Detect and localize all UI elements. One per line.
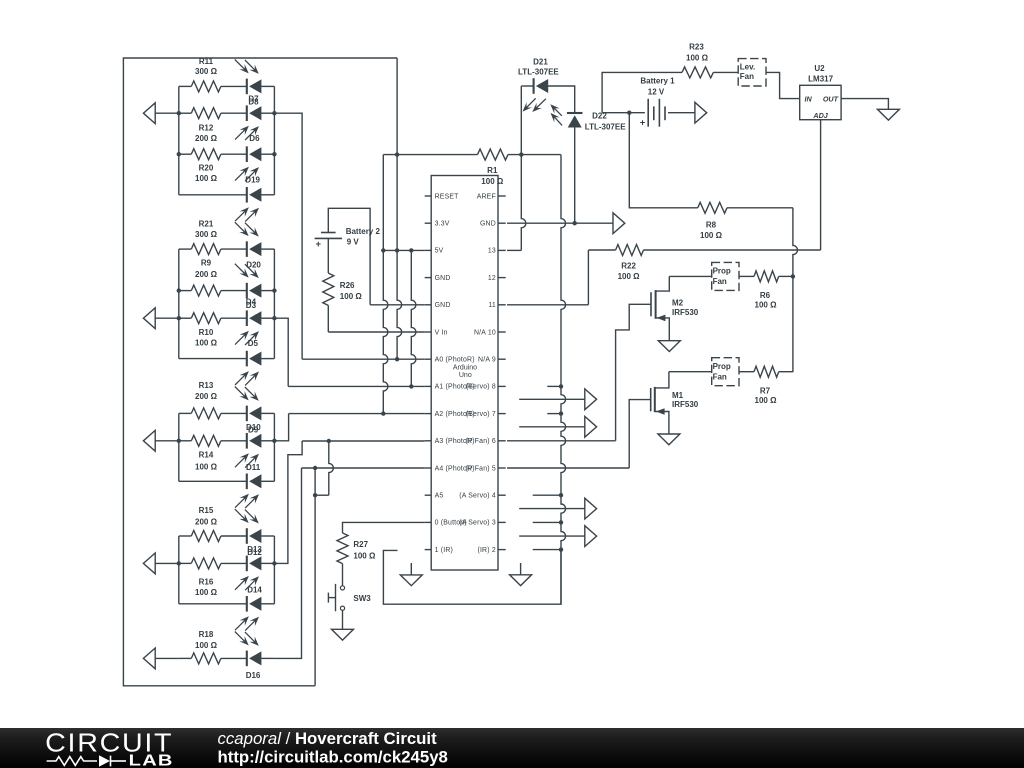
label D10 <box>246 423 261 432</box>
svg-text:100 Ω: 100 Ω <box>755 301 778 310</box>
resistor R16 <box>191 558 221 597</box>
label Battery 1 <box>640 77 675 97</box>
label D19 <box>245 176 260 185</box>
photodiode D13 <box>235 509 262 544</box>
svg-text:D6: D6 <box>249 134 260 143</box>
svg-text:SW3: SW3 <box>353 594 371 603</box>
resistor R8 <box>698 202 727 240</box>
wire right rail block 3 <box>273 413 275 481</box>
wire left rail block 3 <box>178 413 180 481</box>
label D6 <box>249 134 260 143</box>
svg-text:LTL-307EE: LTL-307EE <box>585 122 626 131</box>
svg-text:D12: D12 <box>247 548 262 557</box>
wire R26 to VIn <box>327 305 329 332</box>
wire port row d <box>519 535 585 537</box>
wire PropFan1 to R6 <box>739 275 754 277</box>
wire block 4 row 3 <box>179 603 275 605</box>
wire A1 row <box>288 385 425 387</box>
svg-text:A5: A5 <box>435 493 444 500</box>
port arrow block 4 <box>143 553 178 574</box>
svg-text:R23: R23 <box>689 42 704 51</box>
svg-text:AREF: AREF <box>477 193 496 200</box>
wire A4 row <box>302 466 425 470</box>
wire A3 branch down <box>315 441 333 495</box>
svg-text:R15: R15 <box>199 506 214 515</box>
label D14 <box>247 586 262 595</box>
svg-text:200 Ω: 200 Ω <box>195 270 218 279</box>
junction <box>177 111 277 115</box>
wire left rail block 1 <box>178 86 180 194</box>
LED D22 <box>550 104 582 127</box>
svg-text:100 Ω: 100 Ω <box>481 177 504 186</box>
label D4 <box>246 298 257 307</box>
label D21 <box>518 57 559 76</box>
wire R6 to node <box>779 275 793 277</box>
photodiode D4 <box>235 264 262 299</box>
label D20 <box>246 260 261 269</box>
LED D21 <box>523 78 549 112</box>
photodiode D6 <box>235 146 261 181</box>
wire right rail block 1 <box>273 86 275 194</box>
svg-text:IRF530: IRF530 <box>672 400 699 409</box>
resistor R22 <box>616 245 644 282</box>
wire M1 drain to PropFan2 <box>669 371 712 373</box>
ground M2 <box>658 341 680 352</box>
port arrow block 1 <box>143 103 178 124</box>
wire v1 5V-A2 <box>383 155 388 414</box>
op-amp U1 Arduino Uno box <box>431 176 498 571</box>
wire R1 row <box>383 154 561 156</box>
svg-text:R21: R21 <box>199 220 214 229</box>
wire port row b <box>519 426 585 428</box>
junction v2 A0 <box>395 357 399 361</box>
label Arduino Uno <box>453 364 477 379</box>
svg-text:100 Ω: 100 Ω <box>618 272 641 281</box>
wire GND row <box>507 222 613 224</box>
ground M1 <box>658 434 680 445</box>
wire block3 out to A2 <box>274 414 288 441</box>
svg-text:D14: D14 <box>247 586 262 595</box>
resistor R10 <box>191 313 221 348</box>
wire left rail block 2 <box>178 249 180 359</box>
svg-text:Fan: Fan <box>713 277 727 286</box>
port battery out <box>695 102 707 123</box>
svg-text:12 V: 12 V <box>648 87 665 96</box>
svg-text:IRF530: IRF530 <box>672 308 699 317</box>
junction <box>177 288 277 292</box>
port arrow block 5 <box>143 648 178 669</box>
wire VIn row <box>328 331 424 333</box>
wire U2 OUT to ground <box>841 99 888 110</box>
wire block2 out to A1 <box>274 318 288 386</box>
svg-text:GND: GND <box>480 221 496 228</box>
ground SW3 <box>332 629 354 640</box>
svg-text:(Servo) 8: (Servo) 8 <box>466 384 496 391</box>
label D12 <box>247 548 262 557</box>
wire 1 row stub <box>383 550 561 605</box>
wire pin7 seg <box>547 413 561 415</box>
svg-text:D16: D16 <box>246 671 261 680</box>
photodiode D10 <box>235 387 262 422</box>
svg-text:100 Ω: 100 Ω <box>340 292 363 301</box>
svg-text:Battery 1: Battery 1 <box>640 77 675 86</box>
svg-text:R9: R9 <box>201 259 212 268</box>
svg-text:R6: R6 <box>760 291 771 300</box>
wire border loop <box>123 58 397 686</box>
wire SW3 to ground <box>342 610 344 629</box>
photodiode D20 <box>235 222 262 257</box>
wire pin3 seg <box>533 521 561 523</box>
svg-text:M1: M1 <box>672 391 684 400</box>
wire A3 row <box>302 439 425 443</box>
svg-text:R26: R26 <box>340 281 355 290</box>
svg-text:GND: GND <box>435 275 451 282</box>
resistor R7 <box>754 366 779 405</box>
svg-text:ADJ: ADJ <box>812 111 828 120</box>
resistor R1 <box>478 149 509 186</box>
photodiode D8 <box>235 105 261 140</box>
svg-text:Prop: Prop <box>713 362 731 371</box>
svg-text:U2: U2 <box>814 64 825 73</box>
photodiode D7 <box>235 60 262 95</box>
wire M2 drain to PropFan1 <box>669 275 711 277</box>
svg-text:D3: D3 <box>246 301 257 310</box>
svg-text:http://circuitlab.com/ck245y8: http://circuitlab.com/ck245y8 <box>218 748 448 767</box>
svg-text:(P Fan) 5: (P Fan) 5 <box>465 465 495 472</box>
wire R23 to LevFan <box>713 71 738 73</box>
junction <box>177 152 277 156</box>
junction v1 A2 <box>381 411 385 415</box>
wire R23 riser <box>602 72 682 112</box>
wire port row a <box>519 398 585 400</box>
ground under Arduino <box>400 563 422 586</box>
wire port row c <box>519 508 585 510</box>
svg-text:GND: GND <box>435 302 451 309</box>
photodiode D3 <box>235 310 261 345</box>
wire block 2 row 2 <box>179 290 275 292</box>
svg-text:D11: D11 <box>246 463 261 472</box>
resistor R26 <box>323 273 363 305</box>
photodiode D19 <box>235 187 261 222</box>
label D9 <box>248 425 259 434</box>
svg-text:+: + <box>316 239 322 250</box>
svg-text:R18: R18 <box>199 630 214 639</box>
wire R7 to node <box>779 371 793 373</box>
label D7 <box>248 95 259 104</box>
label Battery 2 <box>346 227 381 247</box>
wire block 3 row 1 <box>179 412 275 414</box>
svg-text:Uno: Uno <box>459 372 472 379</box>
label D11 <box>246 463 261 472</box>
wire pin11 to R22 <box>507 250 588 305</box>
wire R1net riser x561 <box>561 155 566 605</box>
wire pin6 to M2 gate <box>507 304 651 441</box>
svg-text:R12: R12 <box>199 123 214 132</box>
wire pin5 to M1 gate <box>507 400 651 468</box>
port arrow a <box>585 389 597 410</box>
label D8 <box>248 97 259 106</box>
junction R1 right <box>519 152 523 156</box>
svg-text:(P Fan) 6: (P Fan) 6 <box>465 438 495 445</box>
svg-text:12: 12 <box>488 275 496 282</box>
svg-text:LAB: LAB <box>129 752 174 768</box>
wire D22 down <box>574 127 576 223</box>
photodiode D11 <box>235 474 261 509</box>
wire D21 to D22 top <box>548 86 575 113</box>
wire battery1 row <box>602 112 695 114</box>
wire block5 out to A4 <box>274 468 301 658</box>
svg-text:Fan: Fan <box>740 72 754 81</box>
svg-text:100 Ω: 100 Ω <box>195 641 218 650</box>
svg-text:D5: D5 <box>248 339 259 348</box>
battery B1 <box>640 99 665 129</box>
label D13 <box>247 545 262 554</box>
wire LevFan to U2 <box>766 72 800 98</box>
svg-text:OUT: OUT <box>823 94 839 103</box>
svg-text:R27: R27 <box>353 540 368 549</box>
Prop Fan 1 box <box>712 262 739 290</box>
svg-text:Arduino: Arduino <box>453 364 477 371</box>
wire battery2 top loop <box>328 208 370 304</box>
wire block 5 row 1 <box>179 657 275 659</box>
svg-text:N/A 10: N/A 10 <box>474 329 496 336</box>
wire block 4 row 1 <box>179 535 275 537</box>
wire left rail block 4 <box>178 536 180 604</box>
wire pin13 riser <box>507 86 526 250</box>
wire block 1 row 1 <box>179 85 275 87</box>
svg-text:100 Ω: 100 Ω <box>195 339 218 348</box>
svg-text:(IR) 2: (IR) 2 <box>477 547 495 554</box>
wire R27 to SW3 <box>342 564 344 586</box>
resistor R9 <box>191 259 221 297</box>
svg-text:M2: M2 <box>672 299 684 308</box>
ground right <box>510 563 532 586</box>
label D16 <box>246 671 261 680</box>
resistor R6 <box>754 271 779 310</box>
label D5 <box>248 339 259 348</box>
wire block 1 row 4 <box>179 194 275 196</box>
Lev Fan box <box>738 59 766 86</box>
junction <box>177 316 277 320</box>
Arduino pin stubs <box>425 196 506 550</box>
svg-text:D20: D20 <box>246 260 261 269</box>
svg-text:100 Ω: 100 Ω <box>686 53 709 62</box>
svg-text:D9: D9 <box>248 425 259 434</box>
wire battery1 to R8 <box>629 113 697 208</box>
svg-text:D21: D21 <box>533 57 548 66</box>
svg-text:R16: R16 <box>199 577 214 586</box>
wire R8 to R6 node <box>727 208 797 372</box>
port arrow b <box>585 416 597 437</box>
port arrow c <box>585 498 597 519</box>
svg-text:R10: R10 <box>199 328 214 337</box>
label D3 <box>246 301 257 310</box>
wire block4 out to A3 <box>274 441 302 563</box>
port arrow block 3 <box>143 430 178 451</box>
svg-text:3.3V: 3.3V <box>435 221 450 228</box>
svg-text:R1: R1 <box>487 166 498 175</box>
resistor R20 <box>191 149 221 183</box>
svg-text:(A Servo) 4: (A Servo) 4 <box>459 493 496 500</box>
wire block 4 row 2 <box>179 562 275 564</box>
wire A4 branch down <box>313 468 317 686</box>
svg-text:LM317: LM317 <box>808 75 833 84</box>
junction D22 GND row <box>573 221 577 225</box>
resistor R27 <box>337 533 376 564</box>
resistor R15 <box>191 506 221 542</box>
junction v3 A1 <box>409 384 413 388</box>
footer bar with CircuitLab logo and title <box>0 728 1024 768</box>
battery B2 <box>315 233 342 250</box>
svg-text:R7: R7 <box>760 387 771 396</box>
svg-text:+: + <box>640 117 646 128</box>
wire block 1 row 2 <box>179 112 275 114</box>
svg-text:100 Ω: 100 Ω <box>755 396 778 405</box>
svg-text:IN: IN <box>805 95 813 104</box>
wire PropFan2 to R7 <box>739 371 754 373</box>
wire A0 row <box>302 358 425 360</box>
svg-text:9 V: 9 V <box>347 238 360 247</box>
photodiode D9 <box>235 433 261 468</box>
wire U2 ADJ down <box>820 120 822 250</box>
svg-text:300 Ω: 300 Ω <box>195 230 218 239</box>
resistor R23 <box>682 42 713 78</box>
junction battery1 <box>627 111 631 115</box>
svg-text:100 Ω: 100 Ω <box>195 462 218 471</box>
ground U2 out <box>877 109 899 120</box>
svg-text:200 Ω: 200 Ω <box>195 392 218 401</box>
resistor R13 <box>191 381 221 419</box>
wire right rail block 4 <box>273 536 275 604</box>
wire right rail block 2 <box>273 249 275 359</box>
wire pin4 seg <box>533 494 561 496</box>
photodiode D16 <box>235 632 262 667</box>
svg-text:RESET: RESET <box>435 193 460 200</box>
wire 0 row to R27 <box>343 522 425 533</box>
svg-text:R8: R8 <box>706 220 717 229</box>
op-amp U2 LM317 box <box>800 64 841 120</box>
svg-text:100 Ω: 100 Ω <box>195 174 218 183</box>
svg-text:R20: R20 <box>199 163 214 172</box>
transistor M1 IRF530 <box>651 372 699 434</box>
svg-text:D19: D19 <box>245 176 260 185</box>
svg-text:(Servo) 7: (Servo) 7 <box>466 411 496 418</box>
wire block1 out to A0 <box>274 113 302 359</box>
svg-text:R13: R13 <box>199 381 214 390</box>
svg-text:R14: R14 <box>199 451 214 460</box>
wire v2 top-A0 <box>397 58 402 359</box>
port GND out <box>613 213 625 234</box>
Prop Fan 2 box <box>712 358 739 386</box>
svg-text:V In: V In <box>435 329 448 336</box>
wire block 3 row 3 <box>179 480 275 482</box>
resistor R21 <box>191 220 221 255</box>
svg-text:LTL-307EE: LTL-307EE <box>518 67 559 76</box>
wire R22 to U2 ADJ <box>644 249 821 251</box>
switch SW3 <box>328 584 371 611</box>
svg-text:200 Ω: 200 Ω <box>195 517 218 526</box>
resistor R18 <box>191 630 221 664</box>
wire A2 row <box>289 413 425 415</box>
junction v2 R1 <box>395 152 399 156</box>
junction pins 8 7 4 3 2 <box>559 384 563 552</box>
photodiode D5 <box>235 351 261 386</box>
svg-text:13: 13 <box>488 248 496 255</box>
svg-text:5V: 5V <box>435 248 444 255</box>
svg-text:200 Ω: 200 Ω <box>195 134 218 143</box>
svg-text:1 (IR): 1 (IR) <box>435 547 453 554</box>
label D22 <box>585 112 626 132</box>
wire v3 5V-A1 <box>411 250 416 386</box>
svg-text:100 Ω: 100 Ω <box>353 552 376 561</box>
wire D21 loop left <box>521 85 533 87</box>
resistor R12 <box>191 108 221 143</box>
svg-text:ccaporal / Hovercraft Circuit: ccaporal / Hovercraft Circuit <box>218 729 438 748</box>
wire block 2 row 1 <box>179 248 275 250</box>
photodiode D12 <box>235 556 261 591</box>
port arrow d <box>585 526 597 547</box>
wire battery2 to R26 <box>327 238 329 273</box>
svg-text:N/A 9: N/A 9 <box>478 357 496 364</box>
junction R6 node <box>791 274 795 278</box>
Arduino pin labels <box>435 193 496 554</box>
svg-text:R22: R22 <box>621 261 636 270</box>
svg-text:Battery 2: Battery 2 <box>346 227 381 236</box>
wire 5V row <box>381 248 425 252</box>
resistor R11 <box>191 57 221 92</box>
junction <box>177 439 277 443</box>
svg-text:100 Ω: 100 Ω <box>700 231 723 240</box>
svg-text:D8: D8 <box>248 97 259 106</box>
svg-text:A0 (PhotoR): A0 (PhotoR) <box>435 357 475 364</box>
transistor M2 IRF530 <box>651 276 699 340</box>
wire block 2 row 3 <box>179 317 275 319</box>
svg-text:11: 11 <box>488 302 496 309</box>
wire R22 row <box>588 249 615 251</box>
svg-text:100 Ω: 100 Ω <box>195 588 218 597</box>
svg-text:(A Servo) 3: (A Servo) 3 <box>459 520 496 527</box>
svg-text:300 Ω: 300 Ω <box>195 67 218 76</box>
svg-text:Fan: Fan <box>713 373 727 382</box>
wire pin2 seg <box>533 549 561 551</box>
wire block 2 row 4 <box>179 358 275 360</box>
resistor R14 <box>191 435 221 471</box>
port arrow block 2 <box>143 308 178 329</box>
wire GND2 row <box>370 304 425 306</box>
wire pin8 seg <box>547 385 561 387</box>
svg-text:Prop: Prop <box>713 267 731 276</box>
photodiode D14 <box>235 596 261 631</box>
junction <box>177 561 277 565</box>
wire block 3 row 2 <box>179 440 275 442</box>
svg-text:Lev.: Lev. <box>740 62 755 71</box>
wire block 1 row 3 <box>179 153 275 155</box>
